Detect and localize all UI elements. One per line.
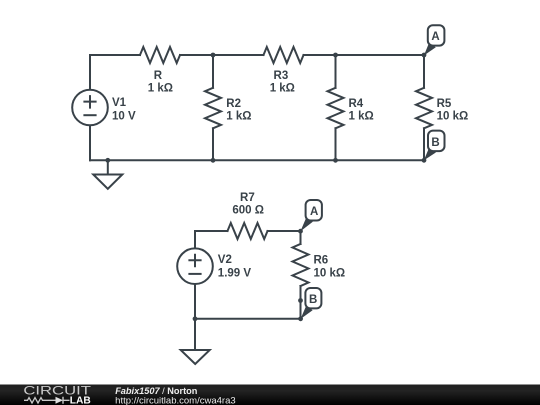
junction node ground top circuit [105,158,110,163]
svg-text:LAB: LAB [70,395,91,405]
V1 minus sign [84,114,95,116]
footer bar [0,385,540,405]
svg-text:1.99 V: 1.99 V [218,267,252,279]
ground stub top circuit [107,160,109,174]
junction node ground lower circuit [193,316,198,321]
svg-text:V1: V1 [112,97,127,109]
voltage source V1 circle [72,90,108,126]
svg-text:Fabix1507 / Norton: Fabix1507 / Norton [115,386,198,396]
svg-text:B: B [431,137,439,149]
V2 minus sign [189,273,200,275]
wire R6 bottom lead [300,286,302,319]
wire V1 bottom lead [89,125,91,160]
wire R2 bottom lead [212,128,214,160]
svg-text:R2: R2 [226,98,241,110]
wire top rail segment R to R3 [180,54,264,56]
svg-text:10 kΩ: 10 kΩ [437,110,469,122]
resistor R3 (1 kOhm horizontal) [264,47,304,63]
svg-text:600 Ω: 600 Ω [232,205,264,217]
lower circuit: wire V2 top lead and rail to R7 [195,231,228,248]
svg-text:R5: R5 [437,98,452,110]
logo resistor squiggle [24,398,49,403]
resistor R (1 kOhm horizontal) [140,47,180,63]
resistor R5 (10 kOhm vertical) [416,88,432,129]
V2 plus sign [189,255,200,267]
wire bottom rail lower circuit [195,318,301,320]
ground symbol lower circuit [181,350,210,364]
wire R4 top lead [335,55,337,88]
ground symbol top circuit [93,175,122,189]
svg-text:V2: V2 [218,254,232,266]
logo diode symbol [49,397,70,404]
svg-text:R6: R6 [314,255,329,267]
junction node R4 top [333,53,338,58]
flag B top circuit [424,131,445,161]
svg-text:http://circuitlab.com/cwa4ra3: http://circuitlab.com/cwa4ra3 [115,396,236,405]
svg-text:R: R [154,70,163,82]
wire R4 bottom lead [335,128,337,160]
wire R5 top lead [423,55,425,88]
junction node R6 bottom pin [298,298,303,303]
svg-text:1 kΩ: 1 kΩ [226,110,251,122]
svg-text:10 V: 10 V [112,111,136,123]
svg-text:R3: R3 [274,70,289,82]
node A top circuit [422,53,427,58]
svg-text:B: B [309,294,317,306]
svg-text:1 kΩ: 1 kΩ [270,82,295,94]
resistor R7 (600 Ohm horizontal) [228,223,268,239]
svg-text:1 kΩ: 1 kΩ [148,82,173,94]
wire V2 bottom lead [194,284,196,319]
V1 plus sign [84,96,95,108]
resistor R6 (10 kOhm vertical) [293,244,309,286]
resistor R4 (1 kOhm vertical) [328,88,344,129]
junction node R2 top [211,53,216,58]
svg-text:A: A [310,206,318,218]
svg-text:A: A [431,31,439,43]
voltage source V2 circle [177,248,213,284]
ground stub lower circuit [194,319,196,350]
svg-text:R4: R4 [349,98,364,110]
svg-text:10 kΩ: 10 kΩ [314,267,346,279]
junction node R2 bottom [211,158,216,163]
node B top circuit [422,158,427,163]
resistor R2 (1 kOhm vertical) [205,88,221,129]
svg-text:R7: R7 [240,192,255,204]
svg-text:1 kΩ: 1 kΩ [349,110,374,122]
node B lower circuit [298,316,303,321]
junction node R4 bottom [333,158,338,163]
node A lower circuit [298,229,303,234]
wire top rail segment R3 to node A [304,54,425,56]
wire top rail left segment (V1 to R) [90,55,140,90]
wire bottom rail [90,159,424,161]
flag A lower circuit [300,200,322,231]
wire R5 bottom lead [423,128,425,160]
flag A top circuit [424,25,445,55]
wire R6 top lead [300,231,302,244]
wire R2 top lead [212,55,214,88]
wire R7 to node A lower [268,230,301,232]
flag B lower circuit [301,288,322,319]
